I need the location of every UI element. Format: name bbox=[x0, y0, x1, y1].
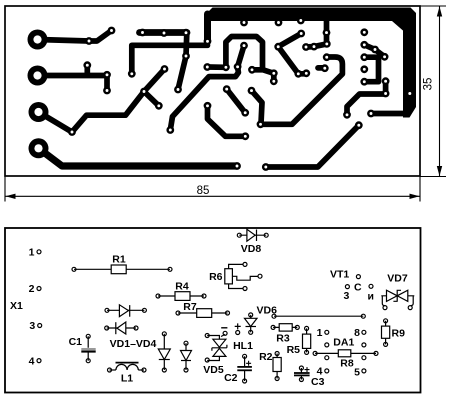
svg-text:3: 3 bbox=[29, 320, 35, 332]
wire column pad2 chain bbox=[364, 45, 384, 57]
svg-text:R3: R3 bbox=[276, 333, 290, 345]
svg-text:35: 35 bbox=[423, 78, 435, 91]
wire horizontal at y45 with left drop bbox=[132, 45, 208, 74]
wire stub with pad bbox=[318, 65, 325, 71]
dimension 85 line bbox=[6, 195, 420, 197]
wire trace from hole pad 2 bbox=[38, 65, 108, 90]
diode VD8 bbox=[237, 229, 268, 241]
inductor L1 bbox=[108, 363, 147, 372]
wire pad D chain to E F bbox=[252, 70, 274, 82]
wire P1 P2 vertical bbox=[383, 81, 389, 93]
svg-text:С: С bbox=[354, 282, 362, 294]
svg-text:R7: R7 bbox=[183, 301, 197, 313]
wire junction to big middle trace bbox=[261, 57, 343, 124]
svg-text:DA1: DA1 bbox=[333, 337, 354, 349]
wire trace to mid-left pad bbox=[208, 106, 246, 137]
top copper bar bbox=[207, 8, 407, 22]
diode VD2 (horizontal left-pointing) bbox=[105, 322, 138, 334]
mounting hole pad 3 bbox=[29, 102, 49, 122]
node X1 pin 4 bbox=[37, 359, 41, 363]
diode VD1 (horizontal right-pointing) bbox=[105, 305, 146, 317]
svg-text:R2: R2 bbox=[259, 351, 273, 363]
svg-text:1: 1 bbox=[317, 327, 323, 339]
resistor R2 bbox=[273, 352, 281, 381]
wire pad A to pad B bbox=[207, 64, 226, 70]
wire trace from hole pad 1 bbox=[38, 31, 112, 42]
svg-text:R4: R4 bbox=[175, 280, 189, 292]
svg-text:VD7: VD7 bbox=[387, 273, 408, 285]
wire 3-pad bar bbox=[140, 29, 188, 36]
svg-text:C1: C1 bbox=[69, 336, 83, 348]
resistor R4 bbox=[156, 292, 206, 301]
wire bar right end to vertical pad pair bbox=[178, 33, 187, 90]
wire small chain of pads bbox=[306, 44, 327, 47]
svg-text:C3: C3 bbox=[311, 376, 325, 388]
trimmer R6 bbox=[225, 262, 262, 290]
svg-text:8: 8 bbox=[354, 327, 360, 339]
inner chamfer of bar joint bbox=[392, 21, 404, 31]
wire Z trace bbox=[347, 94, 386, 115]
svg-text:1: 1 bbox=[29, 247, 35, 259]
svg-text:4: 4 bbox=[317, 366, 323, 378]
node pad holes bbox=[71, 19, 412, 168]
node X1 pin 3 bbox=[38, 324, 42, 328]
resistor R9 bbox=[382, 319, 390, 347]
dimension 85 extension lines bbox=[5, 176, 420, 202]
diode VD3 (vertical) bbox=[158, 332, 170, 372]
wire pad C long route to lower-left pad bbox=[170, 67, 238, 130]
wire right bar bottom horizontal bbox=[371, 111, 405, 117]
resistor R7 bbox=[176, 309, 230, 318]
node X1 pin 1 bbox=[37, 250, 41, 254]
svg-text:HL1: HL1 bbox=[233, 340, 253, 352]
layout outline bbox=[5, 228, 421, 393]
svg-text:R9: R9 bbox=[392, 327, 406, 339]
svg-text:3: 3 bbox=[344, 290, 350, 302]
wire long bottom bar from hole pad 4 bbox=[39, 148, 238, 166]
dimension 35 extension lines bbox=[420, 6, 446, 177]
mounting hole pad 2 bbox=[28, 66, 48, 86]
wire long net line bbox=[272, 314, 365, 318]
wire vertical from top bar to pad bbox=[204, 14, 211, 41]
bidirectional zener VD5 bbox=[205, 331, 227, 362]
wire from pad down to junction bbox=[252, 91, 263, 124]
PCB board outline bbox=[5, 6, 420, 176]
wire inner arch pad down to pad C bbox=[238, 46, 244, 67]
wire angle-bracket trace bbox=[278, 34, 306, 74]
wire big 45 diagonal to bottom bar piece bbox=[266, 125, 359, 167]
wire C-bracket from column pad3 to pad5 bbox=[364, 57, 378, 81]
diode VD6 bbox=[245, 313, 258, 334]
svg-text:L1: L1 bbox=[121, 373, 133, 385]
wire short diagonal bbox=[227, 89, 246, 113]
svg-text:R5: R5 bbox=[287, 344, 301, 356]
wire stub from top bar to pad chain bbox=[324, 20, 330, 44]
transistor VT1 pads bbox=[345, 275, 373, 289]
right copper bar bbox=[403, 8, 416, 118]
svg-text:85: 85 bbox=[197, 185, 210, 197]
capacitor C3 bbox=[294, 366, 310, 382]
svg-text:C2: C2 bbox=[224, 372, 238, 384]
IC DA1 pins bbox=[325, 330, 366, 373]
mounting hole pad 4 bbox=[29, 138, 49, 158]
capacitor C2 bbox=[237, 354, 252, 383]
wire trace from hole pad 3 through V junction bbox=[39, 69, 165, 132]
svg-text:R8: R8 bbox=[340, 358, 354, 370]
dimension 35 line bbox=[439, 7, 441, 177]
svg-text:R6: R6 bbox=[209, 271, 223, 283]
capacitor C1 bbox=[81, 334, 95, 362]
node X1 pin 2 bbox=[37, 287, 41, 291]
mounting hole pad 1 bbox=[28, 30, 48, 50]
diode VD4 (vertical) bbox=[181, 341, 192, 372]
LED pads HL1 bbox=[236, 331, 240, 335]
resistor R8 bbox=[313, 350, 378, 357]
svg-text:R1: R1 bbox=[112, 253, 126, 265]
bidirectional diode VD7 bbox=[381, 290, 414, 310]
node pads black bbox=[85, 37, 93, 45]
svg-text:2: 2 bbox=[29, 283, 35, 295]
svg-text:и: и bbox=[368, 291, 374, 303]
resistor R5 bbox=[303, 326, 311, 354]
wire pi-arch bbox=[226, 37, 263, 70]
svg-text:4: 4 bbox=[29, 355, 35, 367]
resistor R1 bbox=[72, 265, 172, 274]
svg-text:VD5: VD5 bbox=[203, 364, 224, 376]
svg-text:VD8: VD8 bbox=[241, 243, 262, 255]
svg-text:5: 5 bbox=[354, 367, 360, 379]
svg-text:VT1: VT1 bbox=[330, 269, 349, 281]
svg-text:VD1–VD4: VD1–VD4 bbox=[110, 338, 157, 350]
resistor R3 bbox=[271, 324, 299, 331]
svg-text:X1: X1 bbox=[10, 300, 23, 312]
